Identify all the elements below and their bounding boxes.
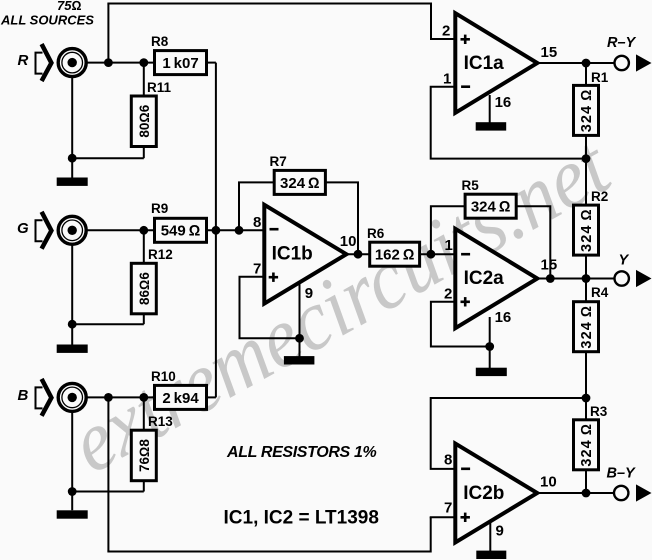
svg-text:80Ω6: 80Ω6 <box>137 104 152 137</box>
svg-text:R1: R1 <box>591 70 609 85</box>
svg-text:16: 16 <box>495 309 512 326</box>
svg-text:2 k94: 2 k94 <box>162 390 199 407</box>
svg-text:R4: R4 <box>591 285 609 300</box>
wire: R node down to R11 <box>143 63 145 96</box>
wire: output column R3 to B-Y <box>585 469 587 493</box>
resistor R7 <box>270 154 326 194</box>
resistor R10 <box>151 369 207 409</box>
wire: into IC1a pin 2 <box>430 38 455 40</box>
wire: IC1a feedback loop <box>431 87 586 159</box>
wire: IC1b pin 9 stub <box>299 283 301 357</box>
junction node R4 bottom <box>582 394 591 403</box>
svg-text:B–Y: B–Y <box>607 466 637 482</box>
ground IC1b pin 9 <box>284 356 315 364</box>
junction node R-R11 <box>139 58 148 67</box>
output port B-Y <box>607 466 652 502</box>
junction node R ground <box>68 154 77 163</box>
junction node B-Y output <box>582 489 591 498</box>
wire: bottom run to IC2b <box>107 551 430 553</box>
wire: up to IC2b pin 7 <box>430 517 432 552</box>
wire: R ground horizontal <box>72 157 144 159</box>
ground R input <box>57 178 88 186</box>
svg-text:7: 7 <box>253 260 261 277</box>
junction node R-top <box>104 58 113 67</box>
wire: R5 right drop <box>516 206 550 278</box>
wire: B BNC ground stub <box>71 411 73 511</box>
svg-text:G: G <box>17 220 29 237</box>
svg-text:9: 9 <box>496 523 504 540</box>
resistor R9 <box>151 201 207 242</box>
resistor R2 <box>574 189 609 255</box>
svg-text:324 Ω: 324 Ω <box>579 89 595 133</box>
wire: top horizontal line to IC1a <box>107 3 431 5</box>
svg-text:R8: R8 <box>151 34 169 49</box>
ground IC2a pin 16 <box>476 368 507 376</box>
resistor R4 <box>574 285 609 352</box>
wire: top branch up from R node <box>107 4 109 63</box>
wire: IC1a output to R-Y <box>537 62 614 64</box>
wire: B node down to bottom run <box>107 397 109 551</box>
junction node G-bus <box>212 226 221 235</box>
svg-text:R13: R13 <box>148 414 173 429</box>
wire: R7 left drop <box>239 182 274 230</box>
svg-text:R3: R3 <box>590 404 608 419</box>
junction node IC1b pin7 <box>295 334 304 343</box>
wire: B node down to R13 <box>143 397 145 430</box>
resistor R1 <box>574 70 609 135</box>
wire: G BNC ground stub <box>71 244 73 345</box>
wire: R5 left drop <box>431 206 465 254</box>
svg-text:B: B <box>18 387 29 404</box>
BNC connector R <box>58 49 86 77</box>
svg-text:324 Ω: 324 Ω <box>280 175 320 192</box>
svg-text:324 Ω: 324 Ω <box>579 208 595 252</box>
svg-text:R9: R9 <box>151 201 168 216</box>
junction node G-R12 <box>139 226 148 235</box>
svg-text:15: 15 <box>541 44 558 61</box>
junction node B-R13 <box>139 393 148 402</box>
wire: R input to R8 <box>72 62 154 64</box>
wire: IC2b feedback loop <box>431 398 586 469</box>
junction node IC2a pin1 <box>427 250 436 259</box>
svg-text:R11: R11 <box>147 80 172 95</box>
junction node Y output <box>582 274 591 283</box>
wire: IC1a pin 16 stub <box>489 95 491 123</box>
svg-text:16: 16 <box>495 94 512 111</box>
svg-text:ALL SOURCES: ALL SOURCES <box>0 13 94 28</box>
wire: IC2b pin 9 stub <box>489 521 491 551</box>
op-amp IC1a <box>442 13 557 113</box>
svg-text:2: 2 <box>444 286 452 303</box>
wire: G node down to R12 <box>143 230 145 263</box>
output port Y <box>615 253 652 288</box>
input port R <box>18 44 52 81</box>
wire: R12 bottom to ground wire <box>143 313 145 325</box>
resistor R12 <box>131 247 172 314</box>
wire: R10 to summing bus <box>206 396 216 398</box>
svg-text:8: 8 <box>444 452 452 469</box>
svg-text:549 Ω: 549 Ω <box>161 223 201 240</box>
wire: R8 to summing bus <box>206 62 216 64</box>
input port G <box>17 212 51 249</box>
svg-text:Y: Y <box>619 253 630 269</box>
svg-text:1 k07: 1 k07 <box>162 55 198 72</box>
junction node IC2a pin2 <box>485 342 494 351</box>
BNC connector B <box>58 383 86 411</box>
junction node IC2a out R5 <box>546 274 555 283</box>
wire: R7 right drop <box>325 182 358 254</box>
wire: IC2a pin 16 stub <box>489 317 491 368</box>
ground IC2b pin 9 <box>476 551 506 559</box>
wire: R13 bottom to ground wire <box>143 480 145 492</box>
wire: R9 to IC1b pin 8 <box>206 229 264 231</box>
svg-text:IC2a: IC2a <box>464 268 505 289</box>
output port R-Y <box>607 35 652 72</box>
svg-text:IC1, IC2 = LT1398: IC1, IC2 = LT1398 <box>224 508 379 529</box>
input port B <box>18 379 52 416</box>
svg-text:IC1b: IC1b <box>272 243 313 264</box>
svg-text:R12: R12 <box>148 247 173 262</box>
svg-text:75Ω: 75Ω <box>57 0 81 13</box>
resistor R13 <box>131 414 173 481</box>
svg-text:IC2b: IC2b <box>463 483 504 504</box>
op-amp IC2a <box>444 229 557 328</box>
wire: IC1b output to R6 <box>346 253 369 255</box>
junction node R1 bottom <box>582 154 591 163</box>
svg-text:8: 8 <box>253 214 261 231</box>
wire: G input to R9 <box>72 229 154 231</box>
junction node B ground <box>68 487 77 496</box>
BNC connector G <box>58 216 86 244</box>
svg-text:7: 7 <box>444 500 452 517</box>
svg-text:9: 9 <box>305 285 313 302</box>
svg-text:15: 15 <box>541 257 558 274</box>
ground B input <box>57 510 88 518</box>
svg-text:10: 10 <box>540 473 557 490</box>
wire: summing bus vertical <box>215 63 217 398</box>
resistor R3 <box>574 404 608 470</box>
wire: down to IC1a pin 2 <box>430 3 432 40</box>
svg-text:10: 10 <box>340 233 357 250</box>
svg-text:R2: R2 <box>591 189 608 204</box>
junction node R-Y output <box>582 59 591 68</box>
svg-text:ALL RESISTORS 1%: ALL RESISTORS 1% <box>226 444 377 461</box>
svg-text:324 Ω: 324 Ω <box>579 305 595 349</box>
wire: IC2a output to Y <box>537 278 614 280</box>
wire: IC1b pin 7 loop <box>240 277 300 339</box>
resistor R6 <box>367 226 420 266</box>
wire: R6 to IC2a pin 1 <box>420 253 456 255</box>
svg-text:86Ω6: 86Ω6 <box>137 272 152 305</box>
wire: R BNC ground stub <box>71 76 73 178</box>
junction node G ground <box>68 320 77 329</box>
resistor R8 <box>151 34 207 75</box>
wire: IC2b output to B-Y <box>537 492 614 494</box>
svg-text:R: R <box>18 52 29 69</box>
svg-text:324 Ω: 324 Ω <box>579 423 595 467</box>
svg-text:1: 1 <box>445 237 453 254</box>
svg-text:162 Ω: 162 Ω <box>375 247 415 264</box>
svg-text:R–Y: R–Y <box>607 35 637 51</box>
svg-text:76Ω8: 76Ω8 <box>137 439 152 472</box>
svg-text:324 Ω: 324 Ω <box>471 199 511 216</box>
svg-text:R7: R7 <box>270 154 287 169</box>
svg-text:R10: R10 <box>151 369 176 384</box>
junction node G-R7 <box>235 226 244 235</box>
wire: output column R1-R2 <box>585 63 587 205</box>
svg-text:IC1a: IC1a <box>464 53 505 74</box>
resistor R5 <box>462 178 517 218</box>
wire: output column R4-R3 <box>585 351 587 420</box>
junction node IC1b out <box>354 250 363 259</box>
ground G input <box>57 345 88 353</box>
svg-text:R6: R6 <box>367 226 385 241</box>
svg-text:R5: R5 <box>462 178 480 193</box>
wire: output column R2-R4 <box>585 255 587 302</box>
wire: B ground horizontal <box>72 491 144 493</box>
wire: IC2a pin 2 loop <box>431 302 490 347</box>
op-amp IC1b <box>253 205 356 304</box>
svg-text:2: 2 <box>442 23 450 40</box>
wire: G ground horizontal <box>72 323 144 325</box>
junction node B-bottom <box>104 393 113 402</box>
wire: into IC2b pin 7 <box>430 516 456 518</box>
wire: B input to R10 <box>72 396 154 398</box>
wire: R11 bottom to ground wire <box>143 147 145 159</box>
resistor R11 <box>131 80 171 147</box>
op-amp IC2b <box>444 444 557 543</box>
ground IC1a pin 16 <box>476 122 507 130</box>
svg-text:1: 1 <box>443 70 451 87</box>
